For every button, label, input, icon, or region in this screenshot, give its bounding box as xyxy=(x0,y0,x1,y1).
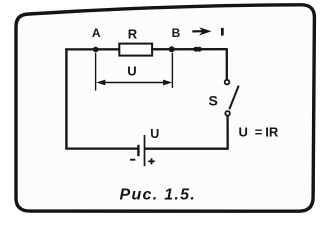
U measurement extension line right xyxy=(171,53,173,88)
battery minus sign xyxy=(130,159,135,161)
connector dots on top wire xyxy=(193,47,198,52)
label I xyxy=(221,28,224,36)
wire: right lower (from switch) xyxy=(226,116,228,150)
svg-text:=: = xyxy=(255,125,263,140)
svg-text:IR: IR xyxy=(265,125,279,140)
switch S top contact xyxy=(225,80,230,85)
wire: top horizontal xyxy=(65,48,227,51)
border frame xyxy=(16,5,314,211)
svg-text:U: U xyxy=(150,127,159,141)
wire: left vertical xyxy=(65,48,67,148)
current arrow xyxy=(192,30,203,32)
dimension arrowhead left xyxy=(96,80,105,86)
wire: bottom left (battery minus side) xyxy=(65,147,137,149)
svg-text:S: S xyxy=(209,93,218,109)
U dimension line xyxy=(100,82,168,84)
switch S blade xyxy=(229,86,238,110)
resistor R xyxy=(119,44,152,56)
battery short plate (minus) xyxy=(137,145,139,156)
node A xyxy=(93,47,99,53)
wire: right upper (to switch) xyxy=(226,48,228,80)
switch S bottom contact xyxy=(225,111,230,116)
U measurement extension line left xyxy=(95,53,97,91)
battery plus sign xyxy=(148,158,154,164)
svg-text:R: R xyxy=(128,27,138,42)
wire: bottom right (battery plus side) xyxy=(145,148,228,150)
battery long plate (plus) xyxy=(144,135,146,166)
svg-text:U: U xyxy=(239,125,248,140)
dimension arrowhead right xyxy=(163,80,172,86)
svg-text:B: B xyxy=(172,26,181,40)
svg-text:Рис. 1.5.: Рис. 1.5. xyxy=(119,186,196,203)
node B xyxy=(169,46,175,52)
svg-text:A: A xyxy=(92,26,101,40)
svg-text:U: U xyxy=(127,64,136,79)
